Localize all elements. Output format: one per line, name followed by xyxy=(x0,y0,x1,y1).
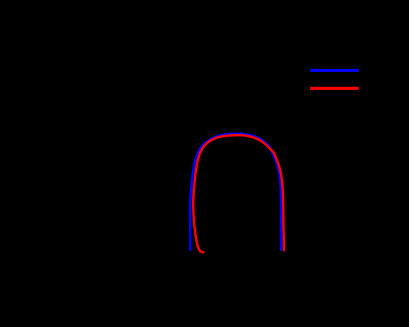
legend red line xyxy=(310,87,359,90)
legend blue line xyxy=(310,69,359,72)
red fit curve xyxy=(193,135,284,252)
blue data curve xyxy=(190,134,281,251)
